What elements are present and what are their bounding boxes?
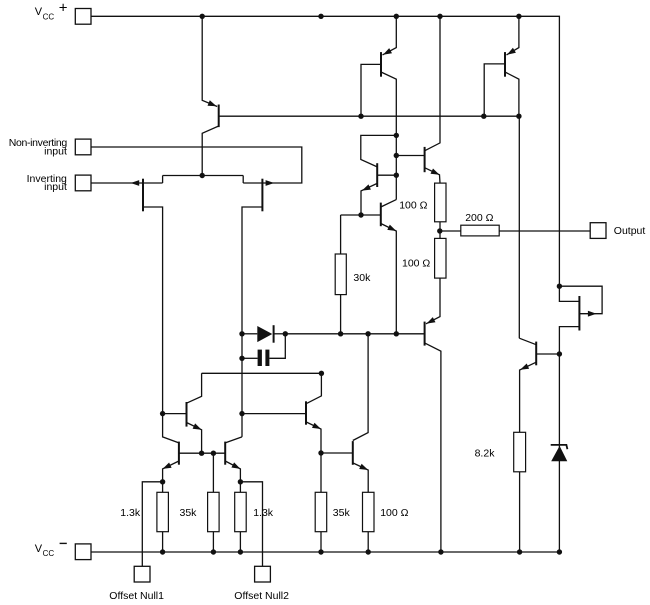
label R8 1.3k — [253, 507, 274, 519]
junction Q4 emitter / Q5 base / 30k — [358, 212, 363, 217]
junction J3 gate / V+ branch — [557, 284, 562, 289]
junction base line / 35k left — [211, 451, 216, 456]
label VCC- — [35, 543, 67, 558]
svg-text:CC: CC — [43, 12, 55, 21]
wire V- rail — [91, 551, 559, 553]
label R3 100 ohm — [399, 199, 427, 211]
transistor Q1 (PNP current source) — [202, 16, 219, 175]
junction Q1 base line / Q3 base — [481, 114, 486, 119]
wire Q1 base line — [219, 115, 519, 117]
wire Q8 collector cross line — [202, 372, 322, 374]
junction V+ rail / Q2 emitter — [394, 14, 399, 19]
svg-text:+: + — [59, 0, 68, 17]
junction cross line / Q9 collector — [319, 371, 324, 376]
terminal Output — [590, 223, 606, 239]
resistor R6 1.3k (left) — [157, 482, 169, 552]
junction Q2 collector / Q4 collector — [394, 133, 399, 138]
transistor Q7 (PNP, output low side) — [425, 278, 441, 552]
terminal Offset Null2 — [255, 566, 271, 582]
terminal Offset Null1 — [134, 566, 150, 582]
resistor R5 200 ohm — [461, 225, 499, 236]
transistor Q11 (NPN) — [163, 414, 179, 482]
junction V+ rail / node to second stage — [318, 14, 323, 19]
resistor R7 35k (left) — [208, 453, 220, 552]
label R7 35k — [180, 507, 198, 519]
junction 30k / second stage line — [338, 331, 343, 336]
junction Q9 emitter / Q10 base / 35k — [318, 450, 323, 455]
label R10 100 ohm — [380, 507, 408, 519]
terminal VCC- — [75, 544, 91, 560]
svg-text:V: V — [35, 543, 43, 555]
transistor Q4 (NPN) — [361, 163, 396, 215]
label R6 1.3k — [120, 507, 141, 519]
zener diode D2 — [551, 445, 568, 461]
svg-text:Offset Null1: Offset Null1 — [109, 590, 164, 602]
junction R10 / V- rail — [366, 549, 371, 554]
junction Q13 base / right rail — [557, 351, 562, 356]
junction J2 drain / diode anode — [239, 331, 244, 336]
junction Q1 base line / Q3 collector — [516, 114, 521, 119]
svg-text:input: input — [44, 181, 67, 193]
svg-text:100 Ω: 100 Ω — [402, 258, 430, 270]
wire between 100 ohm resistors — [439, 222, 441, 239]
label Inverting input — [27, 173, 67, 193]
svg-text:Output: Output — [614, 225, 646, 237]
svg-text:200 Ω: 200 Ω — [465, 212, 493, 224]
svg-text:input: input — [44, 145, 67, 157]
wire V+ rail — [91, 16, 559, 286]
resistor R3 100 ohm (upper) — [435, 183, 446, 222]
junction node / Q6 base — [394, 153, 399, 158]
resistor R8 1.3k (right) — [235, 482, 247, 552]
label R2 30k — [353, 272, 371, 284]
junction null1 / 1.3k — [160, 479, 165, 484]
transistor Q6 (NPN, output high side) — [425, 16, 440, 183]
resistor R2 30k — [335, 215, 346, 334]
junction Q10 collector / line — [365, 331, 370, 336]
svg-text:30k: 30k — [353, 272, 371, 284]
wire 200 ohm to Output terminal — [499, 230, 590, 232]
label R9 35k — [333, 507, 351, 519]
label R4 100 ohm — [402, 258, 430, 270]
wire Q6 base wire — [396, 155, 424, 157]
junction R7 / V- rail — [211, 549, 216, 554]
transistor Q5 (NPN) — [381, 200, 397, 334]
wire Q4/Q5 node line — [341, 214, 381, 216]
svg-text:V: V — [35, 6, 43, 18]
label VCC+ — [35, 0, 68, 21]
label R5 200 ohm — [465, 212, 493, 224]
junction R8 / V- rail — [238, 549, 243, 554]
label Output — [614, 225, 646, 237]
wire Q3 collector down to Q12 collector — [518, 116, 520, 338]
svg-text:35k: 35k — [333, 507, 351, 519]
junction R9 / V- rail — [318, 549, 323, 554]
junction right rail end — [557, 549, 562, 554]
wire Q3 base to base line — [484, 64, 505, 116]
junction V+ rail / Q3 emitter — [516, 14, 521, 19]
junction node / Q4 base — [394, 173, 399, 178]
svg-text:1.3k: 1.3k — [253, 507, 274, 519]
wire Q2 base to base line — [361, 64, 381, 116]
transistor Q9 (NPN) — [306, 373, 321, 453]
terminal VCC+ — [75, 9, 91, 25]
junction V+ rail / Q6 collector — [437, 14, 442, 19]
wire Q2 collector node to Q4 collector loop — [361, 135, 397, 167]
junction J1 drain / Q8 base — [160, 411, 165, 416]
junction R6 / V- rail — [160, 549, 165, 554]
wire output node to 200 ohm — [440, 230, 461, 232]
junction Q7 collector / V- rail — [438, 549, 443, 554]
resistor R4 100 ohm (lower) — [435, 238, 446, 278]
wire Q9 base wire — [242, 413, 306, 415]
svg-text:Offset Null2: Offset Null2 — [234, 590, 289, 602]
junction Q1 collector / sources — [200, 173, 205, 178]
label Non-inverting input — [9, 137, 68, 157]
wire Q11/Q12 base line — [179, 452, 225, 454]
junction Q8 emitter / base line — [199, 451, 204, 456]
transistor Q8 (NPN) — [163, 373, 202, 453]
svg-text:100 Ω: 100 Ω — [399, 199, 427, 211]
transistor Q13 (NPN) — [519, 338, 559, 432]
transistor Q2 (PNP) — [381, 16, 396, 199]
JFET J2 (non-inverting input) — [91, 147, 302, 437]
svg-text:8.2k: 8.2k — [475, 447, 496, 459]
junction Q5 emitter / line — [394, 331, 399, 336]
resistor R9 35k (right) — [315, 453, 327, 552]
JFET J1 (inverting input) — [91, 176, 163, 414]
wire second stage line — [285, 333, 424, 335]
terminal Non-inverting input — [75, 139, 91, 155]
resistor R10 100 ohm (bottom) — [363, 492, 375, 552]
capacitor C1 — [242, 334, 285, 366]
transistor Q3 (PNP) — [505, 16, 519, 116]
junction J2 drain / Q9 base line — [239, 411, 244, 416]
svg-text:35k: 35k — [180, 507, 198, 519]
wire common source line — [163, 175, 244, 177]
svg-text:100 Ω: 100 Ω — [380, 507, 408, 519]
label R11 8.2k — [475, 447, 496, 459]
junction output tap — [437, 228, 442, 233]
resistor R11 8.2k — [514, 432, 526, 552]
svg-text:1.3k: 1.3k — [120, 507, 141, 519]
junction R11 / V- rail — [517, 549, 522, 554]
junction Q1 base line / Q2 base — [358, 114, 363, 119]
transistor Q12 (NPN) — [225, 437, 242, 482]
svg-text:CC: CC — [43, 549, 55, 558]
wire offset null2 jog — [240, 482, 262, 567]
JFET J3 (current source) — [559, 286, 602, 552]
junction null2 / 1.3k — [238, 479, 243, 484]
diode D1 — [242, 325, 285, 343]
wire offset null1 jog — [142, 482, 162, 567]
junction diode cathode / capacitor — [283, 331, 288, 336]
junction J2 drain / capacitor — [239, 356, 244, 361]
junction V+ rail / Q1 emitter — [200, 14, 205, 19]
transistor Q10 (NPN) — [321, 334, 368, 493]
label Offset Null1 — [109, 590, 164, 602]
label Offset Null2 — [234, 590, 289, 602]
terminal Inverting input — [75, 175, 91, 191]
